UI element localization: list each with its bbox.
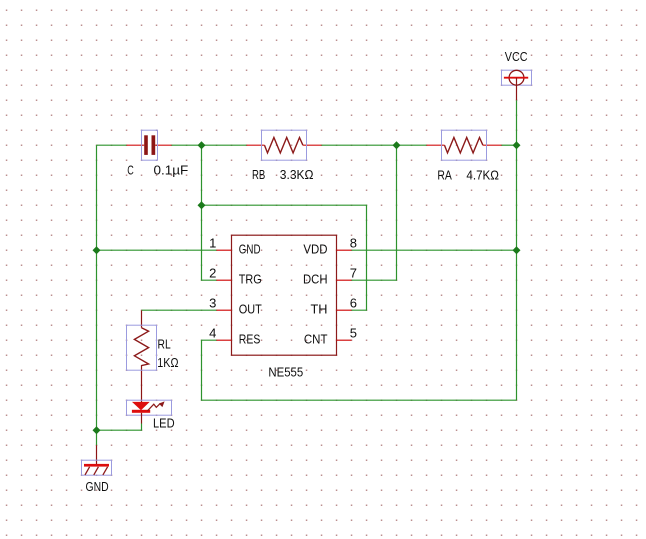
pin 3 stub <box>217 309 232 311</box>
svg-text:RES: RES <box>239 332 261 347</box>
pin 6 stub <box>337 309 352 311</box>
wire net VCC vertical <box>516 100 518 400</box>
resistor RA body <box>442 130 487 160</box>
svg-text:NE555: NE555 <box>268 364 303 379</box>
wire top row left to capacitor <box>97 144 127 146</box>
resistor RA leads <box>427 144 445 146</box>
node GND rail junction <box>93 246 101 254</box>
capacitor C body <box>142 130 158 160</box>
svg-text:CNT: CNT <box>304 332 328 347</box>
wire pin6 TH loop to node A <box>202 205 367 310</box>
wire pin8 VDD to VCC <box>352 249 517 251</box>
svg-text:RB: RB <box>252 167 265 182</box>
wire capacitor to node A <box>172 144 247 146</box>
pin 8 stub <box>337 249 352 251</box>
node TH loop junction <box>198 201 206 209</box>
node LED rail junction <box>93 426 101 434</box>
resistor RB leads <box>247 144 265 146</box>
svg-text:6: 6 <box>350 295 357 310</box>
svg-text:GND: GND <box>239 242 261 257</box>
svg-text:4.7KΩ: 4.7KΩ <box>466 167 499 182</box>
wire LED cathode to left rail <box>97 424 142 431</box>
resistor RB body <box>262 130 307 160</box>
wire pin1 GND to left rail <box>97 249 217 251</box>
node A junction <box>198 141 206 149</box>
wire node A vertical / pin2 TRG <box>202 145 217 280</box>
LED D1 body <box>127 400 172 415</box>
svg-text:0.1µF: 0.1µF <box>154 163 189 178</box>
ground lead <box>96 445 98 464</box>
svg-text:TRG: TRG <box>239 272 262 287</box>
wire bottom RES net <box>202 340 517 400</box>
pin 4 stub <box>217 339 232 341</box>
svg-text:3: 3 <box>209 295 216 310</box>
wire pin7 DCH up to RB/RA node <box>352 145 397 280</box>
resistor RL leads <box>141 311 143 328</box>
op IC NE555 U1 body <box>232 235 337 355</box>
svg-text:OUT: OUT <box>239 302 262 317</box>
svg-text:C: C <box>127 163 134 178</box>
svg-text:VDD: VDD <box>303 242 327 257</box>
wire pin3 OUT to RL <box>142 309 217 311</box>
svg-text:TH: TH <box>311 302 328 317</box>
power VCC symbol <box>502 70 532 100</box>
wire RA to VCC rail <box>502 144 517 146</box>
pin 2 stub <box>217 279 232 281</box>
svg-text:DCH: DCH <box>303 272 328 287</box>
svg-text:GND: GND <box>86 479 109 494</box>
pin 7 stub <box>337 279 352 281</box>
svg-text:2: 2 <box>209 265 216 280</box>
svg-text:8: 8 <box>350 235 357 250</box>
svg-text:LED: LED <box>153 416 175 431</box>
node RA/VCC junction <box>513 141 521 149</box>
svg-text:7: 7 <box>350 265 357 280</box>
svg-text:RA: RA <box>437 167 452 182</box>
svg-text:VCC: VCC <box>505 49 528 64</box>
wire RB to RA <box>322 144 427 146</box>
capacitor C1 leads <box>127 144 145 146</box>
svg-text:5: 5 <box>350 325 357 340</box>
svg-text:1KΩ: 1KΩ <box>157 355 178 370</box>
LED cathode lead <box>141 413 143 424</box>
svg-text:1: 1 <box>209 235 216 250</box>
node RB/RA junction <box>393 141 401 149</box>
ground symbol <box>82 460 112 475</box>
resistor RL body <box>127 325 157 370</box>
pin 1 stub <box>217 249 232 251</box>
wire left rail vertical <box>96 145 98 445</box>
pin 5 stub <box>337 339 352 341</box>
svg-text:3.3KΩ: 3.3KΩ <box>280 167 314 182</box>
node VDD/VCC junction <box>513 246 521 254</box>
svg-text:RL: RL <box>158 337 171 352</box>
svg-text:4: 4 <box>209 325 216 340</box>
